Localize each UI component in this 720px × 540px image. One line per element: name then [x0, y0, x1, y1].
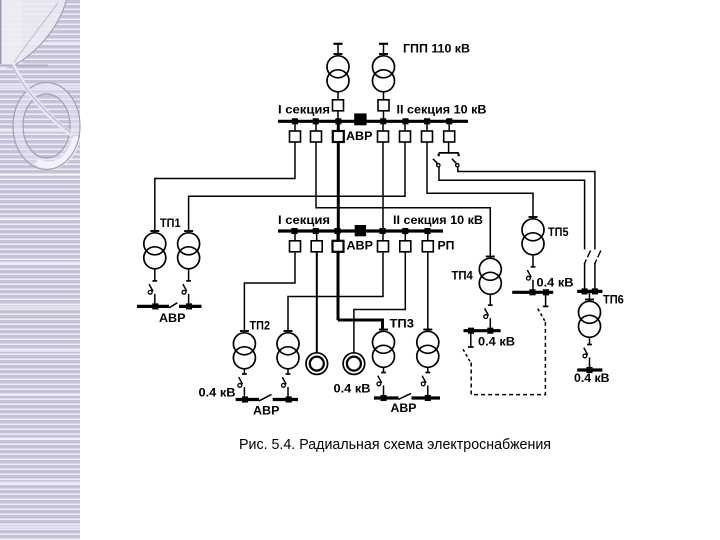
svg-text:II секция 10 кВ: II секция 10 кВ: [397, 103, 487, 117]
svg-text:0.4 кВ: 0.4 кВ: [334, 381, 371, 395]
svg-text:ТП2: ТП2: [250, 319, 271, 333]
svg-text:АВР: АВР: [391, 401, 417, 415]
svg-text:II секция 10 кВ: II секция 10 кВ: [393, 213, 483, 227]
svg-text:I секция: I секция: [278, 103, 330, 117]
svg-text:АВР: АВР: [347, 239, 374, 253]
svg-text:ТП3: ТП3: [390, 317, 415, 331]
svg-text:АВР: АВР: [253, 404, 280, 418]
svg-text:АВР: АВР: [159, 311, 186, 325]
svg-text:ТП4: ТП4: [452, 268, 474, 282]
svg-text:Рис. 5.4. Радиальная схема эле: Рис. 5.4. Радиальная схема электроснабже…: [239, 437, 551, 453]
svg-text:ГПП 110 кВ: ГПП 110 кВ: [403, 42, 470, 56]
svg-text:0.4 кВ: 0.4 кВ: [478, 335, 515, 349]
svg-text:0.4 кВ: 0.4 кВ: [574, 371, 610, 385]
svg-text:ТП6: ТП6: [603, 292, 624, 306]
svg-text:I секция: I секция: [278, 213, 330, 227]
svg-text:РП: РП: [438, 239, 455, 253]
svg-text:ТП5: ТП5: [548, 225, 569, 239]
svg-text:0.4 кВ: 0.4 кВ: [199, 385, 236, 399]
svg-text:0.4 кВ: 0.4 кВ: [537, 276, 574, 290]
svg-text:АВР: АВР: [346, 129, 373, 143]
svg-text:ТП1: ТП1: [160, 216, 181, 230]
